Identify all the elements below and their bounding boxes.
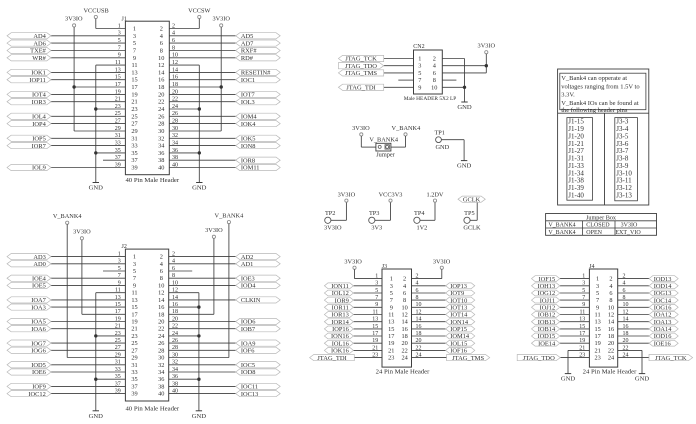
net flag JTAG_TDO <box>338 63 383 70</box>
note text <box>560 73 646 114</box>
test point TP5 <box>463 210 481 232</box>
net flag AD5 <box>236 33 281 40</box>
net flag IOE3 <box>236 275 281 282</box>
wire J1 pin 40 <box>169 167 235 169</box>
svg-text:5: 5 <box>596 290 599 297</box>
svg-text:IOL16: IOL16 <box>332 340 349 347</box>
svg-text:17: 17 <box>594 333 600 340</box>
svg-text:18: 18 <box>401 333 407 340</box>
svg-text:22: 22 <box>158 326 164 333</box>
wire J4 pin 4 <box>618 285 649 287</box>
ground below J1 right <box>192 183 207 192</box>
svg-text:9: 9 <box>133 282 136 289</box>
svg-text:1: 1 <box>418 56 421 63</box>
svg-text:3: 3 <box>133 261 136 268</box>
net flag ION8 <box>236 143 281 150</box>
svg-text:IOD4: IOD4 <box>241 283 256 290</box>
svg-text:IOA6: IOA6 <box>31 326 46 333</box>
svg-text:25: 25 <box>131 113 137 120</box>
wire J2 pin 15 <box>51 306 125 308</box>
wire J1 pin 8 <box>169 50 235 52</box>
net flag IOD15 <box>532 333 560 340</box>
svg-text:TP1: TP1 <box>434 129 445 136</box>
wire J2 pin 28 <box>169 349 236 351</box>
J2 pin numbers outside left <box>115 252 121 395</box>
wire GND bus left of J1 <box>96 65 126 182</box>
power V_BANK4 right of J2 <box>215 212 245 223</box>
svg-text:IOK16: IOK16 <box>331 348 349 355</box>
wire J4 pin 14 <box>618 321 649 323</box>
svg-text:31: 31 <box>131 362 137 369</box>
svg-text:IOL15: IOL15 <box>450 340 467 347</box>
wire J2 pin 25 <box>51 342 125 344</box>
svg-text:J4: J4 <box>589 264 594 270</box>
svg-text:J1: J1 <box>122 16 127 22</box>
svg-text:WR#: WR# <box>32 55 46 62</box>
net flag IOT10 <box>446 297 475 304</box>
svg-text:IOR9: IOR9 <box>335 297 349 304</box>
wire J1 pin 9 <box>51 57 125 59</box>
wire J2 pin 2 <box>169 256 236 258</box>
svg-text:23: 23 <box>388 355 394 362</box>
net flag IOK16 <box>324 348 353 355</box>
svg-text:6: 6 <box>403 290 406 297</box>
svg-text:IOC14: IOC14 <box>654 297 672 304</box>
svg-text:ION11: ION11 <box>331 283 349 290</box>
net flag JTAG_TMS <box>338 70 383 77</box>
svg-text:40: 40 <box>158 165 164 172</box>
wire J4 pin 11 <box>560 314 590 316</box>
connector J4 24-pin male header <box>583 264 637 375</box>
svg-text:TP3: TP3 <box>369 210 380 217</box>
wire J3 pin 7 <box>353 299 382 301</box>
svg-text:TP2: TP2 <box>325 210 336 217</box>
svg-text:40: 40 <box>158 391 164 398</box>
svg-text:1: 1 <box>133 254 136 261</box>
svg-text:IOA13: IOA13 <box>654 319 672 326</box>
svg-text:15: 15 <box>131 304 137 311</box>
wire J2 pin 13 <box>51 299 125 301</box>
power 3V3IO left of J3 <box>344 258 362 269</box>
ground right of TP1 <box>457 161 472 170</box>
svg-text:10: 10 <box>431 84 437 91</box>
svg-text:RXF#: RXF# <box>241 48 257 55</box>
svg-text:2: 2 <box>609 276 612 283</box>
wire J2 pin 4 <box>169 263 236 265</box>
net flag IOG12 <box>532 290 560 297</box>
svg-text:26: 26 <box>158 340 164 347</box>
net flag IOK4 <box>236 121 281 128</box>
junction GND J2 pin 24 <box>197 334 200 337</box>
wire J4 pin 2 <box>618 278 649 280</box>
svg-text:8: 8 <box>609 297 612 304</box>
svg-text:5: 5 <box>418 70 421 77</box>
svg-text:IOF16: IOF16 <box>450 348 467 355</box>
net flag IOF15 <box>532 276 560 283</box>
svg-text:17: 17 <box>131 311 137 318</box>
svg-text:GND: GND <box>457 104 472 111</box>
svg-text:IOA5: IOA5 <box>31 319 46 326</box>
svg-text:14: 14 <box>158 69 165 76</box>
svg-text:3V3IO: 3V3IO <box>324 224 342 231</box>
test point TP1 <box>434 129 449 151</box>
svg-text:JTAG_TCK: JTAG_TCK <box>345 56 377 63</box>
svg-text:20: 20 <box>401 340 407 347</box>
net flag JTAG_TDO <box>517 355 560 362</box>
J1 pin numbers outside right <box>172 23 178 168</box>
svg-text:IOJ12: IOJ12 <box>540 305 556 312</box>
wire J2 pin 33 <box>51 371 125 373</box>
svg-text:32: 32 <box>158 135 164 142</box>
svg-text:8: 8 <box>160 48 163 55</box>
wire J3 pin 14 <box>412 321 446 323</box>
power 3V3IO right of J3 <box>433 258 451 269</box>
svg-text:12: 12 <box>608 312 614 319</box>
test point TP3 <box>369 210 383 232</box>
svg-text:IOR13: IOR13 <box>331 312 348 319</box>
wire J2 pin 8 <box>169 277 236 279</box>
wire CN2 pins 4,6 to 3V3IO <box>442 54 486 73</box>
wire J2 pin 32 <box>169 364 236 366</box>
svg-text:ION8: ION8 <box>241 143 256 150</box>
wire J3 pin 24 <box>412 357 447 359</box>
svg-text:35: 35 <box>131 150 137 157</box>
svg-text:VCCUSB: VCCUSB <box>83 8 108 15</box>
svg-text:24 Pin Male Header: 24 Pin Male Header <box>583 368 637 375</box>
svg-text:18: 18 <box>158 311 164 318</box>
svg-text:10: 10 <box>608 304 614 311</box>
svg-text:AD2: AD2 <box>241 254 253 261</box>
power VCC3V3 <box>379 191 403 202</box>
svg-text:19: 19 <box>388 340 394 347</box>
wire J4 pin 20 <box>618 342 649 344</box>
svg-text:IOR14: IOR14 <box>331 319 349 326</box>
wire J4 pin 24 <box>618 357 649 359</box>
svg-text:13: 13 <box>131 297 137 304</box>
svg-text:36: 36 <box>158 150 164 157</box>
net flag IOC13 <box>236 391 281 398</box>
wire J2 pin 3 <box>51 263 125 265</box>
power 3V3IO left of J2 <box>73 229 91 240</box>
wire J2 pin 37 <box>51 385 125 387</box>
svg-text:6: 6 <box>609 290 612 297</box>
svg-text:34: 34 <box>158 143 165 150</box>
net flag AD6 <box>7 40 51 47</box>
net flag IOF9 <box>7 383 51 390</box>
svg-text:12: 12 <box>158 62 164 69</box>
wire J4 pin 9 <box>560 306 590 308</box>
svg-text:TP5: TP5 <box>464 210 475 217</box>
svg-text:IOA14: IOA14 <box>654 326 673 333</box>
wire J2 pin 1 <box>51 256 125 258</box>
net flag IOR3 <box>7 99 51 106</box>
svg-text:19: 19 <box>131 91 137 98</box>
svg-text:18: 18 <box>608 333 614 340</box>
wire J1 pin 5 <box>51 42 125 44</box>
wire J4 pin 19 <box>560 342 590 344</box>
svg-text:22: 22 <box>401 347 407 354</box>
svg-text:15: 15 <box>131 77 137 84</box>
svg-text:V_BANK4: V_BANK4 <box>215 212 245 219</box>
svg-text:IOP13: IOP13 <box>450 283 467 290</box>
note list J1 pins <box>567 118 593 201</box>
svg-text:IOB13: IOB13 <box>538 319 555 326</box>
junction GND J1 pin 36 <box>198 151 201 154</box>
net flag AD3 <box>7 254 51 261</box>
svg-text:IOL4: IOL4 <box>32 114 47 121</box>
svg-text:38: 38 <box>158 383 164 390</box>
svg-text:IOC12: IOC12 <box>28 391 45 398</box>
svg-text:23: 23 <box>131 333 137 340</box>
connector J1 40-pin male header <box>122 16 180 184</box>
svg-text:JTAG_TMS: JTAG_TMS <box>345 70 377 77</box>
svg-text:28: 28 <box>158 121 164 128</box>
svg-text:33: 33 <box>131 143 137 150</box>
net flag IOE16 <box>649 340 678 347</box>
junction GND J1 pin 23 <box>94 107 97 110</box>
wire J1 pin 6 <box>169 42 235 44</box>
net flag IOB12 <box>532 312 560 319</box>
svg-text:3V3IO: 3V3IO <box>352 125 370 132</box>
svg-text:16: 16 <box>158 77 164 84</box>
wire J2 pin 5 stub <box>103 270 125 272</box>
J4 pin numbers inside <box>594 276 615 362</box>
wire J3 pin 8 <box>412 299 446 301</box>
wire TP5 to GCLK <box>470 202 477 220</box>
svg-text:GND: GND <box>192 185 207 192</box>
svg-text:3V3IO: 3V3IO <box>65 16 83 23</box>
svg-text:JTAG_TDO: JTAG_TDO <box>345 63 377 70</box>
wire J3 pin 16 <box>412 328 446 330</box>
jumper box table <box>546 214 657 236</box>
svg-text:12: 12 <box>401 312 407 319</box>
svg-text:IOM14: IOM14 <box>450 333 470 340</box>
svg-text:24: 24 <box>158 106 165 113</box>
junction GND J2 pin 23 <box>94 334 97 337</box>
wire J1 pin 37 stub <box>103 159 125 161</box>
wire V_BANK4 bus right of J2 <box>169 224 229 358</box>
svg-text:40 Pin Male Header: 40 Pin Male Header <box>125 177 179 184</box>
wire J1 pin 21 <box>51 101 125 103</box>
net flag JTAG_TMS <box>447 355 490 362</box>
svg-text:RESETIN#: RESETIN# <box>241 70 271 77</box>
svg-text:33: 33 <box>131 369 137 376</box>
wire VCCUSB to J1 pin 1 <box>96 19 126 29</box>
svg-text:3: 3 <box>596 283 599 290</box>
svg-text:IOT4: IOT4 <box>32 92 47 99</box>
svg-text:IOF6: IOF6 <box>241 348 255 355</box>
wire J3 pin 20 <box>412 342 446 344</box>
svg-text:16: 16 <box>401 326 407 333</box>
net flag AD7 <box>236 40 281 47</box>
wire J1 pin 14 <box>169 71 235 73</box>
net flag IOT13 <box>446 304 475 311</box>
svg-text:AD5: AD5 <box>241 33 253 40</box>
svg-text:5: 5 <box>133 40 136 47</box>
svg-text:CLOSED: CLOSED <box>586 223 610 229</box>
svg-text:EXT_VIO: EXT_VIO <box>615 230 641 236</box>
net flag RD# <box>236 55 281 62</box>
wire J3 pin 4 <box>412 285 446 287</box>
ground below CN2 <box>457 102 472 111</box>
power VCCUSB <box>83 8 108 19</box>
net flag IOE14 <box>532 340 560 347</box>
net flag IOF6 <box>236 347 281 354</box>
svg-text:IOH13: IOH13 <box>537 283 555 290</box>
svg-text:JTAG_TDI: JTAG_TDI <box>346 85 375 92</box>
net flag IOA7 <box>7 297 51 304</box>
svg-text:IOE3: IOE3 <box>241 275 255 282</box>
net flag IOT7 <box>236 91 281 98</box>
svg-text:V_BANK4: V_BANK4 <box>548 230 575 236</box>
net flag IOH13 <box>532 283 560 290</box>
svg-text:8: 8 <box>433 77 436 84</box>
svg-text:3V3IO: 3V3IO <box>205 227 223 234</box>
connector J2 40-pin male header <box>122 244 180 412</box>
net flag IOR9 <box>324 297 353 304</box>
wire J1 pin 39 <box>51 167 125 169</box>
wire J1 pin 7 <box>51 50 125 52</box>
svg-text:3V3IO: 3V3IO <box>338 191 356 198</box>
net flag IOP16 <box>324 326 353 333</box>
wire J2 pin 27 <box>51 349 125 351</box>
svg-text:6: 6 <box>160 40 163 47</box>
svg-text:38: 38 <box>158 157 164 164</box>
svg-text:IOL3: IOL3 <box>241 99 255 106</box>
wire J1 pin 34 <box>169 145 235 147</box>
wire J3 pin 17 <box>353 335 382 337</box>
net flag IOK5 <box>236 135 281 142</box>
net flag JTAG_TCK <box>338 55 383 62</box>
svg-text:IOD6: IOD6 <box>241 319 256 326</box>
svg-text:IOP4: IOP4 <box>32 121 46 128</box>
net flag AD1 <box>236 261 281 268</box>
wire J4 pin 18 <box>618 335 649 337</box>
wire J4 pin 12 <box>618 314 649 316</box>
wire J4 pin 23 <box>560 357 589 359</box>
svg-text:IOE5: IOE5 <box>32 283 46 290</box>
svg-text:IOD14: IOD14 <box>654 283 673 290</box>
svg-text:27: 27 <box>131 121 137 128</box>
net flag IOJ12 <box>532 304 560 311</box>
wire CN2 pin 9 <box>384 86 414 88</box>
wire J4 pin 16 <box>618 328 649 330</box>
svg-text:2: 2 <box>160 254 163 261</box>
net flag IOC1 <box>236 77 281 84</box>
wire J4 pin 5 <box>560 292 590 294</box>
svg-text:IOA7: IOA7 <box>31 297 46 304</box>
svg-text:J1-40: J1-40 <box>568 192 584 200</box>
net flag IOF16 <box>446 348 475 355</box>
wire 3V3IO bus left of J2 <box>82 240 126 314</box>
svg-text:29: 29 <box>131 355 137 362</box>
svg-text:20: 20 <box>608 340 614 347</box>
svg-text:35: 35 <box>131 376 137 383</box>
svg-text:Jumper: Jumper <box>376 151 395 158</box>
svg-text:13: 13 <box>594 319 600 326</box>
svg-text:GND: GND <box>192 413 207 420</box>
svg-text:21: 21 <box>388 347 394 354</box>
power 3V3IO left of jumper <box>352 125 370 136</box>
svg-text:9: 9 <box>133 55 136 62</box>
wire J4 pin 6 <box>618 292 649 294</box>
ground below J2 right <box>192 411 207 420</box>
wire GND bus left of J2 <box>96 293 126 411</box>
wire J3 pin 23 <box>354 357 382 359</box>
svg-text:IOT13: IOT13 <box>450 305 467 312</box>
svg-text:IOA3: IOA3 <box>31 304 46 311</box>
svg-text:IOM4: IOM4 <box>241 114 257 121</box>
net flag IOT14 <box>446 312 475 319</box>
wire J3 pin 6 <box>412 292 446 294</box>
net flag IOE4 <box>7 275 51 282</box>
wire J1 pin 27 <box>51 123 125 125</box>
wire CN2 pin 8 stub <box>442 79 456 81</box>
wire J1 pin 20 <box>169 93 235 95</box>
net flag IOA13 <box>649 319 678 326</box>
svg-text:GND: GND <box>89 185 104 192</box>
wire CN2 pins 2,10 to GND <box>442 59 464 103</box>
svg-text:V_Bank4 can opperate at: V_Bank4 can opperate at <box>561 75 627 82</box>
net flag IOD14 <box>649 283 678 290</box>
wire CN2 pin 5 <box>384 72 414 74</box>
net flag ION16 <box>324 333 353 340</box>
wire J2 pin 19 <box>51 321 125 323</box>
net flag IOK1 <box>7 69 51 76</box>
svg-text:8: 8 <box>403 297 406 304</box>
svg-text:CN2: CN2 <box>413 44 424 50</box>
svg-text:39: 39 <box>131 391 137 398</box>
net flag IOL4 <box>7 113 51 120</box>
wire 3V3IO to jumper <box>361 136 376 147</box>
J3 pin numbers outside right <box>416 274 422 359</box>
net flag IOD13 <box>649 276 678 283</box>
jumper block <box>376 143 396 158</box>
svg-text:17: 17 <box>131 84 137 91</box>
svg-text:IOP5: IOP5 <box>32 136 46 143</box>
svg-text:IOM11: IOM11 <box>241 165 260 172</box>
wire J3 pin 18 <box>412 335 446 337</box>
net flag TXE# <box>7 47 51 54</box>
net flag AD2 <box>236 254 281 261</box>
net flag IOJ11 <box>532 297 560 304</box>
svg-text:GND: GND <box>457 163 472 170</box>
svg-text:20: 20 <box>158 91 164 98</box>
svg-text:26: 26 <box>158 113 164 120</box>
svg-text:GND: GND <box>635 376 650 383</box>
svg-text:8: 8 <box>160 275 163 282</box>
svg-text:15: 15 <box>594 326 600 333</box>
wire J4 pin 15 <box>560 328 590 330</box>
net label V_BANK4 at jumper <box>369 137 399 144</box>
net flag IOM4 <box>236 113 281 120</box>
J1 pin numbers outside left <box>115 23 121 168</box>
svg-text:IOR11: IOR11 <box>332 305 349 312</box>
svg-text:IOA9: IOA9 <box>241 340 256 347</box>
wire J4 pin 1 <box>560 278 590 280</box>
svg-text:19: 19 <box>594 340 600 347</box>
wire J1 pin 22 <box>169 101 235 103</box>
wire J3 pin 21 <box>353 349 382 351</box>
power 3V3IO <box>338 191 356 202</box>
svg-text:11: 11 <box>388 312 394 319</box>
wire 3V3IO bus right of J1 <box>169 27 221 131</box>
svg-text:30: 30 <box>158 355 164 362</box>
svg-text:37: 37 <box>131 157 137 164</box>
net flag IOM14 <box>446 333 475 340</box>
svg-text:1: 1 <box>596 276 599 283</box>
svg-text:22: 22 <box>158 99 164 106</box>
